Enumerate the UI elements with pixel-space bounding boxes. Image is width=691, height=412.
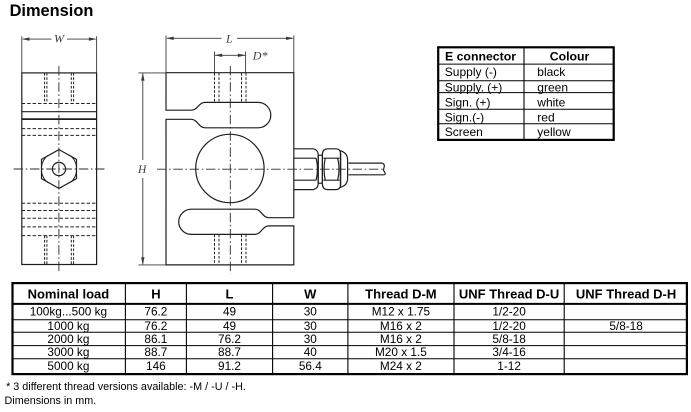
svg-text:green: green — [537, 80, 568, 94]
svg-text:D*: D* — [252, 49, 268, 63]
svg-text:red: red — [537, 110, 554, 124]
svg-text:W: W — [304, 286, 317, 301]
svg-text:Screen: Screen — [445, 125, 483, 139]
svg-text:M12 x 1.75: M12 x 1.75 — [372, 304, 431, 318]
svg-text:3000 kg: 3000 kg — [47, 345, 89, 359]
svg-text:yellow: yellow — [537, 125, 571, 139]
svg-text:Supply (-): Supply (-) — [445, 65, 497, 79]
svg-text:88.7: 88.7 — [218, 345, 241, 359]
svg-text:W: W — [54, 32, 65, 46]
svg-text:Nominal load: Nominal load — [28, 286, 110, 301]
svg-text:M20 x 1.5: M20 x 1.5 — [375, 345, 427, 359]
svg-text:5000 kg: 5000 kg — [47, 359, 89, 373]
svg-text:UNF Thread D-U: UNF Thread D-U — [459, 286, 559, 301]
svg-text:76.2: 76.2 — [144, 304, 167, 318]
svg-text:91.2: 91.2 — [218, 359, 241, 373]
svg-text:* 3 different thread versions: * 3 different thread versions available:… — [6, 381, 246, 393]
svg-text:H: H — [151, 286, 160, 301]
svg-text:88.7: 88.7 — [144, 345, 167, 359]
svg-text:M16 x 2: M16 x 2 — [380, 332, 422, 346]
svg-text:Colour: Colour — [550, 50, 590, 64]
svg-text:L: L — [225, 32, 233, 46]
svg-text:49: 49 — [223, 304, 236, 318]
svg-text:86.1: 86.1 — [144, 332, 167, 346]
svg-text:30: 30 — [304, 304, 318, 318]
svg-text:black: black — [537, 65, 566, 79]
svg-text:white: white — [536, 95, 565, 109]
svg-text:Thread D-M: Thread D-M — [365, 286, 437, 301]
svg-text:146: 146 — [146, 359, 166, 373]
svg-text:E connector: E connector — [445, 50, 516, 64]
svg-text:1-12: 1-12 — [497, 359, 521, 373]
svg-text:1/2-20: 1/2-20 — [492, 304, 526, 318]
svg-text:3/4-16: 3/4-16 — [492, 345, 526, 359]
svg-text:M24 x 2: M24 x 2 — [380, 359, 422, 373]
svg-text:Dimensions in mm.: Dimensions in mm. — [5, 395, 97, 407]
svg-text:H: H — [137, 164, 147, 176]
svg-text:76.2: 76.2 — [218, 332, 241, 346]
svg-text:UNF Thread D-H: UNF Thread D-H — [576, 286, 676, 301]
svg-text:L: L — [226, 286, 234, 301]
svg-text:Dimension: Dimension — [10, 2, 94, 20]
svg-text:5/8-18: 5/8-18 — [492, 332, 526, 346]
svg-text:2000 kg: 2000 kg — [47, 332, 89, 346]
svg-text:40: 40 — [304, 345, 318, 359]
svg-text:Supply. (+): Supply. (+) — [445, 80, 502, 94]
svg-text:100kg...500 kg: 100kg...500 kg — [30, 304, 107, 318]
svg-text:56.4: 56.4 — [299, 359, 322, 373]
svg-text:5/8-18: 5/8-18 — [609, 319, 643, 333]
svg-text:30: 30 — [304, 332, 318, 346]
svg-text:Sign.(-): Sign.(-) — [445, 110, 484, 124]
svg-text:Sign. (+): Sign. (+) — [445, 95, 491, 109]
